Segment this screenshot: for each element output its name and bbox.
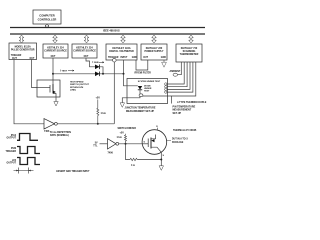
svg-text:OUTPUT: OUTPUT: [7, 138, 17, 140]
svg-text:OUT: OUT: [143, 57, 148, 59]
svg-text:TEST: TEST: [144, 91, 150, 93]
svg-text:DVM: DVM: [11, 148, 16, 150]
wire: driver node down to resistor: [126, 144, 131, 160]
svg-text:UNDER: UNDER: [144, 88, 152, 90]
svg-text:OUT: OUT: [12, 58, 17, 60]
bus arrow (current source 2): [84, 35, 89, 43]
+5V pull-up (DVM trigger line): [96, 97, 106, 124]
P/N temperature label: [173, 106, 196, 115]
svg-text:AMBIENT: AMBIENT: [170, 70, 181, 73]
resistor R3: [130, 158, 137, 160]
svg-text:DIGITAL VOLTMETER: DIGITAL VOLTMETER: [109, 50, 134, 53]
MOSFET Q2 inside: [142, 135, 161, 153]
svg-text:THERMOMETER: THERMOMETER: [180, 53, 199, 56]
node: diode junction: [102, 73, 104, 75]
svg-text:+5V: +5V: [96, 97, 101, 100]
waveform 3 labels: [7, 159, 17, 165]
ground (system box): [120, 103, 124, 108]
svg-text:5V: 5V: [95, 143, 98, 145]
svg-text:CONTROLLER: CONTROLLER: [38, 17, 57, 21]
svg-text:LINE): LINE): [70, 89, 76, 91]
svg-text:SYSTEM UNDER TEST: SYSTEM UNDER TEST: [138, 81, 161, 83]
dimension marks: [14, 168, 34, 174]
svg-text:MEASUREMENT SET-UP: MEASUREMENT SET-UP: [126, 110, 154, 113]
svg-text:J-TYPE THERMOCOUPLE: J-TYPE THERMOCOUPLE: [177, 101, 207, 104]
node: input junction: [123, 73, 125, 75]
bus arrow (thermometer): [189, 35, 194, 43]
pulse generator box: [9, 43, 37, 60]
svg-text:TTL: TTL: [93, 145, 98, 147]
leader: [167, 140, 171, 142]
power supply box: [141, 44, 167, 60]
svg-text:6512: 6512: [11, 135, 17, 137]
node: driver junction: [125, 143, 127, 145]
svg-text:SWITCH DRIVER: SWITCH DRIVER: [118, 128, 137, 130]
svg-text:OUT: OUT: [51, 56, 56, 58]
svg-text:SET-UP: SET-UP: [173, 112, 182, 115]
svg-text:GND: GND: [132, 57, 137, 59]
+5V pull-up resistor R2: [125, 134, 127, 144]
trigger connector circle: [113, 58, 117, 62]
MOSFET Q1 in switch box: [37, 80, 56, 97]
svg-text:PULSE GENERATOR: PULSE GENERATOR: [11, 49, 35, 52]
diode D2 (lower): [95, 72, 100, 77]
case thermocouple bead: [139, 94, 143, 97]
wire: pulse gen OUT left down to inverter line: [14, 60, 44, 124]
svg-text:DIODE: DIODE: [144, 85, 151, 87]
switch box text: [70, 82, 90, 92]
waveform 2 trace: [17, 147, 40, 154]
svg-text:SUB: SUB: [94, 62, 99, 64]
svg-text:4 Ω: 4 Ω: [131, 164, 135, 167]
svg-text:ASSERT AND TRIGGER INPUT: ASSERT AND TRIGGER INPUT: [56, 170, 90, 173]
case thermocouple wire: [143, 62, 196, 96]
diode under test: [138, 86, 142, 90]
DUT package label: [172, 138, 188, 144]
waveform note: [50, 132, 71, 137]
digital voltmeter box: [106, 44, 137, 60]
wire: ambient to thermometer: [178, 62, 182, 75]
svg-text:TRIGGER: TRIGGER: [11, 55, 22, 57]
inverter U1 (7406): [44, 119, 57, 134]
wire: current source 2 out jog: [86, 58, 95, 67]
svg-text:POWER SUPPLY: POWER SUPPLY: [144, 50, 163, 53]
drain terminal tick: [156, 128, 158, 131]
thermocouple wires from thermometer: [167, 62, 184, 84]
ambient junction: [173, 73, 177, 76]
waveform 2 labels: [6, 148, 17, 153]
bus arrow (voltmeter): [121, 35, 126, 43]
bus arrow (current source 1): [53, 35, 58, 43]
wire: DVM gnd / supply out RF loop: [136, 60, 148, 70]
svg-text:OUT: OUT: [30, 58, 35, 60]
svg-text:TRIGGER: TRIGGER: [6, 151, 17, 153]
IEEE-488 bus line upper: [10, 27, 205, 29]
wire: D1 cathode to junction: [100, 67, 103, 74]
svg-text:CURRENT SOURCE: CURRENT SOURCE: [44, 49, 67, 52]
ground (switch box): [54, 97, 58, 106]
wire: current source 1 down: [52, 58, 54, 80]
svg-text:COMPUTER: COMPUTER: [39, 14, 54, 18]
diode D1 (upper): [95, 65, 100, 70]
svg-text:+5V: +5V: [120, 131, 125, 134]
current source 2 box: [72, 44, 97, 58]
current source 1 box: [43, 44, 68, 58]
svg-text:RF/EMI FILTER: RF/EMI FILTER: [135, 73, 152, 75]
svg-text:7406: 7406: [108, 151, 114, 154]
stub wire: [171, 96, 173, 104]
svg-text:RATE (NOMINAL): RATE (NOMINAL): [50, 134, 69, 137]
waveform 3 trace: [17, 158, 40, 165]
TTL input label: [93, 143, 98, 148]
waveform 1 labels: [7, 135, 17, 140]
svg-text:PACKAGE: PACKAGE: [172, 141, 184, 144]
wire: TTL in: [100, 143, 108, 145]
bus arrow (controller): [45, 24, 49, 28]
inverter U2 (7406): [108, 139, 119, 155]
system under test box: [127, 79, 168, 104]
IEEE-488 bus line lower: [10, 33, 205, 35]
svg-text:GND: GND: [161, 57, 166, 59]
computer controller box: [33, 10, 61, 24]
diode labels: [144, 85, 152, 92]
waveform 1 trace: [17, 134, 38, 141]
DUT transistor circle: [142, 130, 167, 155]
trigger wire: circle down and left line up: [113, 62, 115, 124]
svg-text:50 ms REPETITION: 50 ms REPETITION: [50, 132, 71, 134]
wire: pulse gen OUT right to switch box: [32, 60, 38, 88]
svg-text:THERMALLOY 6016B: THERMALLOY 6016B: [173, 129, 197, 132]
wire: resistor to source node: [137, 159, 161, 161]
svg-text:TEST: TEST: [62, 71, 68, 73]
wire: inverter out to trigger: [57, 123, 114, 125]
bus arrow (power supply): [152, 35, 157, 43]
svg-text:1 kΩ: 1 kΩ: [101, 112, 106, 115]
ground (DUT): [159, 166, 163, 171]
wire: DVM input down: [123, 60, 125, 74]
bus arrow (pulse generator): [19, 35, 24, 43]
wire: input junction to diode: [124, 74, 138, 86]
switch box: [37, 80, 60, 97]
node: source junction: [160, 159, 162, 161]
scanning thermometer box: [176, 44, 202, 62]
terminals on right edge: [165, 83, 167, 85]
wire: Itest horizontal: [53, 73, 124, 75]
wire: inverter to gate: [119, 143, 143, 145]
wire: source down to ground: [160, 152, 162, 166]
svg-text:DUT IN A TO-3: DUT IN A TO-3: [172, 138, 188, 141]
svg-text:1 kΩ: 1 kΩ: [117, 136, 122, 139]
svg-text:IEEE-488 BUS: IEEE-488 BUS: [103, 29, 120, 32]
svg-text:INPUT: INPUT: [121, 57, 128, 59]
svg-text:OUT: OUT: [84, 56, 89, 58]
svg-text:OUTPUT: OUTPUT: [7, 163, 17, 165]
wire: bead to ground: [122, 96, 140, 102]
node: Itest junction: [52, 73, 54, 75]
svg-text:CURRENT SOURCE: CURRENT SOURCE: [73, 49, 96, 52]
ground arrow (power supply gnd): [162, 60, 167, 67]
node: pullup junction: [97, 123, 99, 125]
